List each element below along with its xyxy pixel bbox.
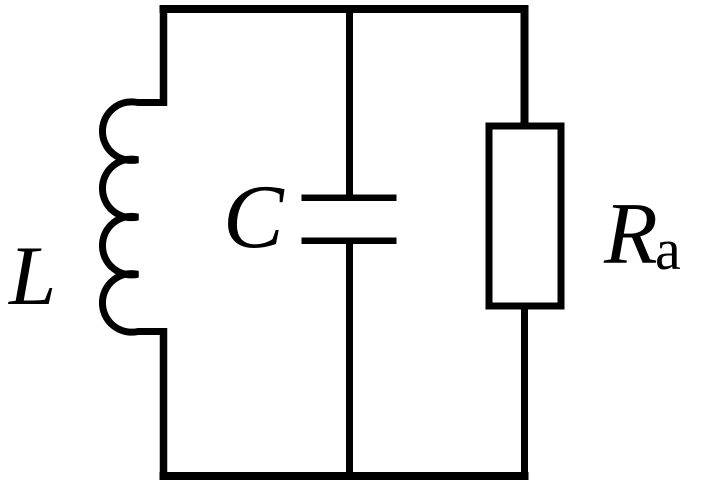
svg-text:a: a: [655, 217, 681, 282]
wire right bottom segment: [521, 306, 528, 480]
svg-text:R: R: [603, 186, 658, 283]
svg-text:C: C: [223, 166, 285, 267]
wire right top segment: [521, 5, 529, 126]
capacitor C bottom plate: [302, 237, 397, 244]
wire left top segment: [160, 5, 168, 106]
inductor L: [102, 102, 167, 332]
svg-text:L: L: [8, 229, 56, 323]
wire middle top segment: [346, 5, 353, 198]
wire top horizontal: [160, 5, 529, 13]
resistor Ra box: [489, 126, 561, 306]
wire middle bottom segment: [346, 241, 353, 480]
wire bottom horizontal: [160, 472, 529, 480]
capacitor C top plate: [302, 195, 397, 202]
wire left bottom segment: [160, 328, 168, 480]
